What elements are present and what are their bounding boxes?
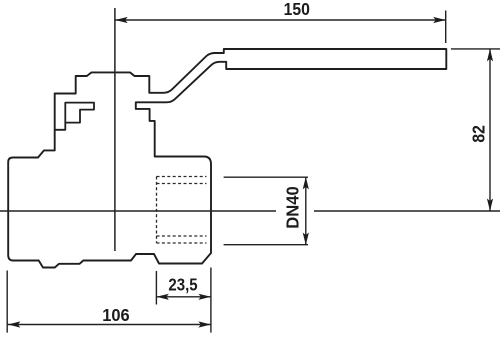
svg-text:150: 150 — [284, 0, 311, 19]
svg-text:82: 82 — [468, 125, 488, 143]
arrow 106 right — [198, 321, 211, 327]
arrow 106 left — [8, 321, 21, 327]
dimension line DN40 — [305, 177, 307, 245]
svg-text:106: 106 — [102, 305, 130, 325]
extension line at handle top right — [451, 48, 500, 50]
svg-text:DN40: DN40 — [283, 186, 303, 229]
horizontal pipe centerline left segment — [0, 210, 276, 212]
thread hidden line upper outer — [157, 176, 207, 178]
arrow 150 left — [115, 17, 128, 23]
arrow 82 bottom — [487, 199, 493, 212]
thread hidden line lower outer — [157, 242, 207, 244]
extension line at handle end — [445, 11, 447, 44]
arrow DN40 top — [303, 177, 309, 190]
extension line body left — [6, 271, 8, 333]
vertical stem centerline — [114, 8, 116, 251]
extension line thread top — [224, 176, 308, 178]
extension line thread start — [155, 271, 157, 305]
valve body and lever handle outline — [8, 49, 446, 268]
svg-text:23,5: 23,5 — [168, 274, 197, 294]
arrow 150 right — [433, 17, 446, 23]
stem gland nut stepped section lines — [55, 103, 94, 130]
extension line thread bottom — [224, 244, 308, 246]
thread hidden line upper inner — [157, 183, 207, 185]
thread end hidden line — [156, 177, 158, 244]
dimension line 82 — [489, 49, 491, 211]
thread hidden line lower inner — [157, 235, 207, 237]
arrow 23,5 left — [156, 294, 169, 300]
arrow 23,5 right — [198, 294, 211, 300]
arrow DN40 bottom — [303, 233, 309, 246]
dimension line 150 — [115, 19, 446, 21]
dimension line 23,5 — [157, 296, 211, 298]
arrow 82 top — [487, 49, 493, 62]
extension line body right — [210, 268, 212, 333]
dimension line 106 — [7, 324, 211, 326]
horizontal pipe centerline right segment — [314, 210, 500, 212]
